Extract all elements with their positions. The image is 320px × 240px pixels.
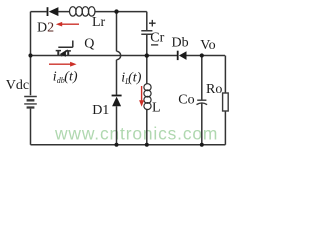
svg-text:idb(t): idb(t) (53, 70, 78, 86)
svg-text:www.cntronics.com: www.cntronics.com (54, 124, 218, 144)
svg-text:D2: D2 (37, 21, 54, 36)
svg-text:D1: D1 (92, 103, 109, 118)
svg-text:Q: Q (84, 36, 94, 51)
svg-text:L: L (152, 100, 161, 115)
svg-text:iL(t): iL(t) (121, 70, 141, 86)
svg-text:Db: Db (172, 36, 189, 51)
svg-text:Vdc: Vdc (6, 78, 29, 93)
svg-text:Vo: Vo (200, 38, 215, 53)
svg-text:Ro: Ro (206, 82, 222, 97)
svg-text:Co: Co (178, 92, 194, 107)
svg-text:Lr: Lr (92, 15, 106, 30)
svg-text:Cr: Cr (150, 31, 164, 46)
